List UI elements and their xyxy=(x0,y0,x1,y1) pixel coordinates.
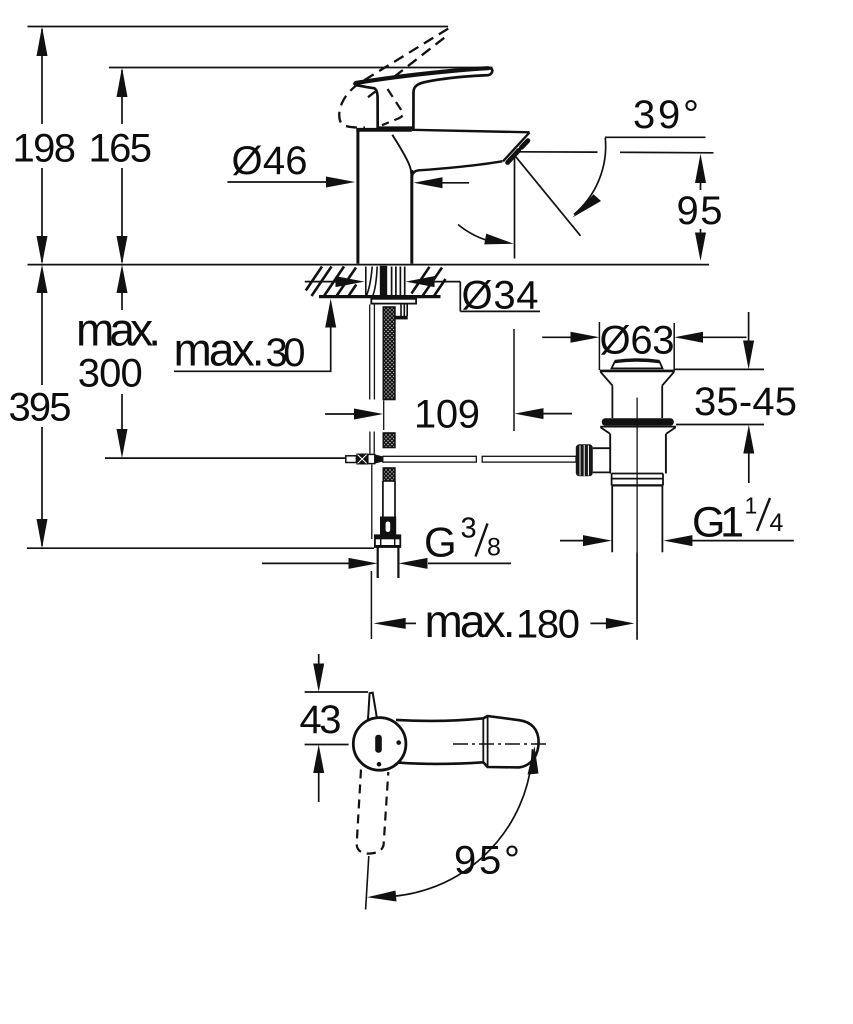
faucet body right edge xyxy=(410,170,413,264)
svg-text:G: G xyxy=(424,519,457,566)
valve top rim xyxy=(600,370,675,373)
svg-text:max.: max. xyxy=(174,323,265,375)
cross fitting black wedge xyxy=(375,454,383,463)
handle centerline dash-dot xyxy=(453,743,550,745)
reference line top (198 level) xyxy=(28,26,449,28)
dimension 198 line xyxy=(41,29,43,262)
dimension 198/395 bowtie at counter xyxy=(37,236,48,265)
dimension 109 left arrow xyxy=(325,413,357,415)
valve lower flange xyxy=(600,427,676,434)
rod guide bracket xyxy=(401,304,407,316)
dimension G1 1/4 arrows xyxy=(583,535,612,546)
counter slab bottom thick line xyxy=(319,295,441,298)
handle collar lines xyxy=(482,719,484,763)
spout bottom edge xyxy=(412,161,503,177)
95 arc bottom arrowhead xyxy=(367,891,397,902)
39 arc arrowhead xyxy=(573,194,602,217)
faucet dashed raised lever upper edge xyxy=(339,29,448,128)
stream incline line xyxy=(515,155,581,236)
svg-text:4: 4 xyxy=(770,509,784,537)
39 degree arc xyxy=(574,138,606,215)
cross fitting dark block xyxy=(356,454,367,465)
109 hose extension line xyxy=(383,401,385,431)
svg-text:Ø34: Ø34 xyxy=(462,274,539,318)
35-45 top reference line xyxy=(674,368,764,370)
dimension max300 arrow bottom xyxy=(117,429,128,458)
vertical reference from spout tip xyxy=(514,155,516,258)
43 top reference line xyxy=(305,691,368,693)
valve tailpipe xyxy=(611,485,613,552)
slab hatch right xyxy=(412,267,446,296)
knurled knob xyxy=(576,444,593,476)
svg-text:43: 43 xyxy=(300,698,342,742)
svg-text:max.: max. xyxy=(425,595,516,647)
pull rod lower single line xyxy=(371,465,373,540)
svg-text:39°: 39° xyxy=(633,93,699,137)
braided hose segment 3 xyxy=(383,468,395,481)
svg-text:Ø46: Ø46 xyxy=(232,139,308,183)
dimension 165 line xyxy=(121,70,123,262)
max30 arrow up to counter underside xyxy=(330,326,332,371)
shank dark stud xyxy=(380,266,387,297)
faucet dashed raised lever lower edge xyxy=(368,38,444,97)
spout tip face xyxy=(503,133,530,162)
395 bottom reference line xyxy=(27,547,374,549)
valve side port xyxy=(593,447,610,449)
svg-text:95°: 95° xyxy=(454,839,520,883)
dimension 35-45 bottom arrow xyxy=(743,425,754,454)
svg-text:109: 109 xyxy=(414,393,480,437)
svg-text:max.: max. xyxy=(76,304,161,356)
dimension Ø34 right arrow xyxy=(406,276,435,287)
shank hole left pipe curve xyxy=(366,267,372,297)
dimension max180 left arrow xyxy=(373,618,405,629)
dimension 95 line xyxy=(700,182,702,234)
dimension 109 right arrow xyxy=(515,408,544,419)
dashed rotated handle xyxy=(357,770,389,854)
faucet body left edge xyxy=(356,130,359,264)
svg-text:300: 300 xyxy=(78,352,143,396)
svg-text:G1: G1 xyxy=(692,498,744,546)
svg-text:Ø63: Ø63 xyxy=(600,319,675,363)
faucet body top thick line xyxy=(356,128,412,132)
95 top reference line xyxy=(517,151,598,153)
svg-text:395: 395 xyxy=(9,386,72,430)
cross fitting white square xyxy=(368,454,375,463)
dimension G3/8 arrows xyxy=(262,562,349,564)
counter top line xyxy=(28,264,710,266)
hose plain tube xyxy=(382,481,384,517)
max300 bottom reference line xyxy=(105,457,346,459)
dimension Ø63 left arrow xyxy=(542,336,573,338)
dimension 395 arrow bottom xyxy=(37,519,48,548)
svg-text:8: 8 xyxy=(487,534,501,562)
braided hose upper run xyxy=(383,307,395,400)
valve O-ring xyxy=(602,418,674,426)
svg-text:1: 1 xyxy=(745,493,758,519)
dimension 35-45 top arrow xyxy=(748,312,750,342)
dimension 395 line xyxy=(41,290,43,546)
valve funnel sides xyxy=(601,372,674,418)
body-spout inner transition curve xyxy=(392,135,411,176)
svg-text:165: 165 xyxy=(89,127,153,171)
lever top edge thick stroke xyxy=(356,68,488,83)
dimension 198 arrow top xyxy=(37,27,48,57)
shank tube lines xyxy=(392,267,405,297)
cross fitting small box xyxy=(346,456,357,463)
dimension Ø46 left arrow xyxy=(326,177,355,188)
dimension Ø46 right arrow xyxy=(414,177,443,188)
handle top view: lever bar xyxy=(396,716,539,767)
faucet solid lever blade xyxy=(354,68,492,128)
valve body xyxy=(609,434,611,474)
dimension 165 arrow top xyxy=(117,68,128,98)
svg-text:95: 95 xyxy=(677,189,723,233)
35-45 bottom reference line xyxy=(676,424,764,426)
rotated handle axis extension xyxy=(366,856,369,910)
Ø34 leader bend xyxy=(459,282,461,312)
95 degree arc xyxy=(372,749,533,897)
under-counter mounting flange xyxy=(371,299,416,304)
dimension 95 arrows xyxy=(695,154,706,183)
dimension 43 top arrow xyxy=(318,654,320,665)
dimension Ø63 extension lines xyxy=(598,322,600,370)
horizontal pull rod right segment xyxy=(482,456,576,462)
reference line 165 level xyxy=(109,67,493,69)
109 right extension line xyxy=(513,329,515,431)
dimension max180 right arrow xyxy=(590,622,607,624)
hose end nut xyxy=(375,535,400,547)
svg-text:180: 180 xyxy=(516,602,580,646)
aerator band upper segment xyxy=(521,141,528,148)
dimension Ø63 right arrow xyxy=(674,332,703,343)
95 arc top arrowhead xyxy=(528,746,539,775)
thread G3/8 xyxy=(377,548,379,579)
valve coupling ring xyxy=(612,474,663,486)
pull rod mid xyxy=(369,432,371,454)
svg-text:35-45: 35-45 xyxy=(694,380,797,424)
dimension Ø34 left arrow xyxy=(305,281,338,283)
dimension max300 line xyxy=(121,290,123,431)
dimension 43 bottom arrow xyxy=(313,745,324,774)
valve centerline xyxy=(636,398,638,641)
waste valve plunger cap xyxy=(612,360,663,368)
lower swivel arc xyxy=(458,225,490,242)
pivot slot xyxy=(375,735,382,753)
handle pivot circle xyxy=(353,718,406,771)
aerator band lower segment xyxy=(508,150,519,162)
svg-text:198: 198 xyxy=(13,127,77,171)
hose end dark fitting xyxy=(380,517,396,536)
horizontal pull rod left segment xyxy=(383,456,477,462)
lower arc arrowhead xyxy=(484,234,514,245)
dimension 165/max300 bowtie at counter xyxy=(117,236,128,265)
dimension max180 extension lines xyxy=(370,571,372,639)
slab hatch left xyxy=(306,267,357,297)
braided hose segment 2 xyxy=(383,433,395,448)
handle top view: spike tab xyxy=(368,693,377,720)
spout top line xyxy=(412,130,530,133)
39 degree reference underline xyxy=(605,136,706,138)
pull rod upper xyxy=(369,305,371,400)
svg-text:3: 3 xyxy=(461,513,477,545)
faucet dashed raised lever neck xyxy=(382,89,403,125)
pivot dots xyxy=(396,740,401,745)
43 bottom reference line xyxy=(305,744,349,746)
svg-text:30: 30 xyxy=(266,331,306,375)
